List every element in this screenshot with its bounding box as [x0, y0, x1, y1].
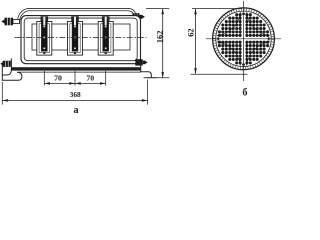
arm end screws — [217, 13, 269, 66]
fuse link 1 — [41, 17, 47, 54]
svg-text:70: 70 — [86, 73, 94, 82]
fuse link 2 — [72, 17, 78, 54]
fuse terminal cap 3 — [102, 16, 110, 21]
dimension 162 line — [161, 9, 164, 78]
svg-text:а: а — [73, 105, 78, 116]
dimension 368 extension lines — [2, 80, 147, 105]
fuse box inner case line — [24, 18, 137, 61]
fuse holder 2 body — [68, 22, 83, 56]
right cable gland bolt — [132, 13, 145, 20]
rim knurling — [213, 8, 274, 69]
right stud bolt — [135, 59, 147, 65]
perforation dots — [218, 13, 242, 37]
left stud bolt — [0, 61, 10, 67]
horizontal centre line — [206, 38, 281, 40]
base lower edge line — [18, 71, 141, 73]
dimension 70-70 line — [44, 82, 105, 85]
svg-text:162: 162 — [156, 31, 165, 44]
base channel band — [11, 67, 141, 70]
cover outer rim — [213, 8, 275, 70]
fuse holder 1 body — [37, 22, 52, 56]
cover inner rim — [216, 11, 271, 66]
fuse link 3 — [103, 17, 109, 54]
ventilation plate quadrants — [217, 12, 241, 36]
svg-text:368: 368 — [70, 90, 81, 99]
svg-text:70: 70 — [54, 73, 62, 82]
fuse box outer case — [21, 16, 141, 64]
gland boss on box — [131, 20, 136, 23]
fuse terminal cap 2 — [71, 16, 79, 21]
dimension 62 line — [194, 9, 197, 74]
centre line of box (dash-dot) — [15, 36, 147, 38]
right foot bracket — [141, 62, 157, 78]
svg-text:б: б — [242, 87, 247, 98]
dimension 62 extension bottom — [191, 73, 248, 75]
conduit pipe across top — [19, 10, 135, 21]
fuse holder 3 body — [98, 22, 113, 56]
dimension 162 extension bottom — [147, 77, 169, 79]
inner panel — [32, 24, 130, 50]
left foot bracket — [2, 59, 22, 81]
dimension 62 extension top — [192, 8, 242, 10]
dimension 368 line — [2, 99, 147, 102]
vertical centre line — [243, 1, 245, 81]
left cable gland bolt — [1, 18, 19, 26]
svg-text:62: 62 — [187, 28, 196, 36]
dimension 162 extension top — [146, 8, 169, 10]
fuse terminal cap 1 — [41, 16, 49, 21]
dimension 70-70 extension lines — [44, 71, 105, 86]
